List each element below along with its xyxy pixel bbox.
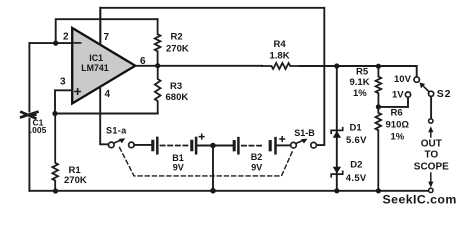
svg-text:IC1: IC1 <box>89 53 103 63</box>
svg-text:9V: 9V <box>173 163 184 173</box>
pin 4 stub down to S1-a <box>100 87 108 145</box>
svg-text:S1-a: S1-a <box>106 126 127 136</box>
svg-text:SCOPE: SCOPE <box>414 161 449 172</box>
wire B1 to center tap <box>198 145 233 147</box>
node pin6 junction <box>155 63 160 68</box>
wire B2 to S1-B <box>277 144 291 146</box>
node pin2 junction <box>53 41 58 46</box>
svg-text:680K: 680K <box>166 92 189 103</box>
wire left branch to C1 <box>28 43 30 112</box>
resistor R3 <box>155 66 188 114</box>
wire pin3 to R3 bottom <box>55 113 158 115</box>
svg-text:1.8K: 1.8K <box>270 50 290 61</box>
switch S2 <box>392 74 451 100</box>
svg-text:R4: R4 <box>274 39 287 50</box>
svg-text:9V: 9V <box>251 162 262 172</box>
svg-text:910Ω: 910Ω <box>386 119 410 130</box>
node pin3 junction <box>52 111 57 116</box>
switch S1-B <box>291 128 317 148</box>
svg-text:4.5V: 4.5V <box>346 173 367 184</box>
resistor R5 <box>350 66 382 107</box>
svg-text:D1: D1 <box>350 123 363 134</box>
svg-text:270K: 270K <box>64 175 87 186</box>
node D chain top junction <box>334 63 339 68</box>
wire S2 to scope terminal <box>430 97 432 119</box>
wire V+ top rail (pin 7 to S1-B throw) <box>100 8 324 145</box>
wire pin 2 input <box>29 42 72 44</box>
svg-text:270K: 270K <box>166 44 189 55</box>
wire output pin 6 <box>135 65 262 67</box>
resistor R1 <box>52 114 86 192</box>
scope terminal top <box>428 119 433 137</box>
node R6 ground junction <box>376 188 381 193</box>
svg-text:TO: TO <box>424 150 438 161</box>
wire pin 3 input <box>55 90 72 113</box>
wire S1-a to B1 <box>134 144 152 146</box>
node center tap ground junction <box>210 188 216 194</box>
svg-text:R6: R6 <box>391 107 403 118</box>
battery B2 <box>234 137 284 173</box>
node R1 ground junction <box>53 188 58 193</box>
svg-text:S2: S2 <box>437 88 451 100</box>
svg-text:9.1K: 9.1K <box>350 77 370 88</box>
svg-text:R2: R2 <box>171 31 183 42</box>
svg-text:R1: R1 <box>69 165 82 176</box>
svg-text:R3: R3 <box>170 81 182 92</box>
dashed gang linkage S1-a to S1-B <box>120 148 294 176</box>
svg-text:1%: 1% <box>391 132 405 143</box>
op-amp U1 triangle <box>72 28 135 104</box>
svg-text:.005: .005 <box>30 125 47 135</box>
switch S1-a <box>106 126 134 148</box>
svg-text:R5: R5 <box>356 66 369 77</box>
battery B1 <box>153 134 204 172</box>
wire C1 to ground rail <box>28 119 30 191</box>
zener diode D2 <box>331 160 367 185</box>
resistor R2 <box>155 19 189 65</box>
svg-text:D2: D2 <box>350 160 362 171</box>
svg-text:1%: 1% <box>353 88 367 99</box>
svg-text:7: 7 <box>104 32 110 43</box>
svg-text:4: 4 <box>105 89 111 100</box>
svg-text:SeekIC.com: SeekIC.com <box>383 193 457 207</box>
node battery center tap <box>210 143 216 149</box>
svg-text:LM741: LM741 <box>81 63 108 73</box>
wire center tap to ground <box>212 146 214 191</box>
svg-text:3: 3 <box>60 77 66 88</box>
wire 1V tap <box>378 97 408 107</box>
svg-text:OUT: OUT <box>421 138 442 149</box>
label OUT TO SCOPE <box>414 138 449 172</box>
pin 7 stub <box>99 8 101 45</box>
svg-text:S1-B: S1-B <box>294 128 315 138</box>
svg-text:2: 2 <box>63 32 69 43</box>
node R5/R6 junction <box>376 104 381 109</box>
zener diode D1 <box>331 123 367 147</box>
wire feedback (pin 2 up and over to R2 top) <box>56 19 158 43</box>
svg-text:B1: B1 <box>172 153 184 163</box>
diode chain vertical wire <box>336 66 338 191</box>
resistor R6 <box>376 107 410 191</box>
node D chain ground junction <box>334 188 339 193</box>
resistor R4 <box>262 39 300 69</box>
wire pin6 rail right segment <box>300 66 417 77</box>
node R5 top junction <box>376 64 381 69</box>
svg-text:B2: B2 <box>251 152 263 162</box>
ground rail (bottom wire) <box>29 190 430 192</box>
scope terminal bottom <box>428 173 433 193</box>
svg-text:5.6V: 5.6V <box>346 135 367 146</box>
svg-text:10V: 10V <box>394 74 412 85</box>
svg-text:1V: 1V <box>392 89 404 100</box>
capacitor C1 <box>21 112 46 135</box>
